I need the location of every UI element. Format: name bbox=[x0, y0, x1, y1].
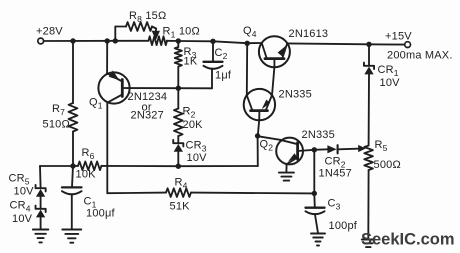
ground R5 bbox=[362, 240, 375, 248]
wire Q3 base down to node bbox=[258, 120, 259, 136]
svg-text:100μf: 100μf bbox=[86, 208, 115, 220]
wire Q1 collector down to R4 line bbox=[106, 103, 108, 194]
resistor R7 510 ohm bbox=[43, 41, 78, 166]
wire Q1 emitter to rail bbox=[106, 41, 108, 73]
resistor R2 20K bbox=[174, 88, 203, 136]
wire Q4 base to Q3 emitter bbox=[272, 67, 274, 93]
capacitor C3 100pf bbox=[306, 193, 358, 233]
resistor R1 10 ohm rheostat bbox=[149, 26, 200, 46]
svg-text:R8 15Ω: R8 15Ω bbox=[129, 10, 166, 24]
capacitor C1 100uf bbox=[62, 166, 115, 229]
node junction C2 top bbox=[210, 39, 215, 44]
ground CR4 bbox=[33, 230, 49, 243]
svg-text:20K: 20K bbox=[183, 119, 204, 131]
svg-text:500Ω: 500Ω bbox=[374, 159, 401, 171]
node junction Q1 base / R3 / R2 bbox=[176, 86, 181, 91]
node junction C1 / R7 bottom bbox=[70, 163, 75, 168]
wire Q2 emitter to ground bbox=[285, 164, 287, 172]
svg-text:10V: 10V bbox=[12, 213, 33, 225]
wire Q4 emitter to +15V terminal bbox=[287, 43, 405, 44]
wire rail R1 to Q4 bbox=[167, 41, 262, 43]
svg-text:200ma MAX.: 200ma MAX. bbox=[387, 50, 453, 62]
svg-text:+28V: +28V bbox=[36, 26, 63, 38]
ground C1 bbox=[62, 230, 81, 243]
node junction CR3 bottom / R6 line bbox=[176, 164, 181, 169]
transistor Q2 2N335 error amplifier bbox=[260, 129, 335, 164]
transistor Q3 2N335 driver bbox=[244, 89, 312, 121]
svg-text:1N457: 1N457 bbox=[319, 168, 352, 180]
svg-text:10K: 10K bbox=[76, 169, 97, 181]
wire Q2 collector to node bbox=[258, 136, 280, 140]
zener diode CR5 10V bbox=[9, 166, 46, 198]
svg-text:10V: 10V bbox=[380, 77, 401, 89]
svg-text:+15V: +15V bbox=[385, 31, 412, 43]
wire Q3 collector branch bbox=[246, 43, 248, 95]
svg-text:1μf: 1μf bbox=[215, 70, 232, 82]
svg-text:2N1613: 2N1613 bbox=[289, 28, 329, 40]
capacitor C2 1uf bbox=[204, 41, 232, 88]
svg-text:R1 10Ω: R1 10Ω bbox=[163, 26, 200, 40]
resistor R4 51K bbox=[107, 177, 314, 213]
node junction R4 / C3 / Q2 base branch bbox=[312, 191, 317, 196]
resistor R8 15 ohm bbox=[115, 10, 166, 41]
svg-text:SeekIC.com: SeekIC.com bbox=[361, 231, 455, 249]
wire Q1 base line bbox=[122, 87, 212, 89]
svg-text:51K: 51K bbox=[170, 201, 191, 213]
svg-text:1K: 1K bbox=[184, 56, 198, 68]
watermark SeekIC.com bbox=[361, 231, 455, 249]
wiper arrow into R5 bbox=[358, 145, 366, 152]
wiper arrow of R1 bbox=[152, 31, 160, 40]
ground C3 bbox=[311, 234, 325, 246]
node junction R7 top bbox=[70, 38, 75, 43]
wire R8 to R1 wiper bbox=[152, 27, 156, 32]
svg-text:10V: 10V bbox=[187, 152, 208, 164]
svg-text:510Ω: 510Ω bbox=[43, 119, 70, 131]
svg-text:2N335: 2N335 bbox=[279, 89, 312, 101]
wire CR5 branch to R6 bbox=[40, 165, 73, 167]
wire Q2 base branch vertical bbox=[313, 150, 315, 194]
svg-text:10V: 10V bbox=[14, 186, 35, 198]
wire Q2 base lead bbox=[298, 150, 315, 151]
label 200ma MAX bbox=[387, 50, 453, 62]
ground Q2 emitter bbox=[279, 173, 294, 181]
zener diode CR1 10V bbox=[364, 44, 400, 145]
node junction Q1 emitter top bbox=[105, 38, 110, 43]
node junction Q2 base / CR2 bbox=[312, 147, 317, 152]
svg-text:2N335: 2N335 bbox=[302, 129, 335, 141]
zener diode CR3 10V bbox=[173, 136, 207, 166]
resistor R3 1K bbox=[175, 41, 198, 88]
svg-text:100pf: 100pf bbox=[329, 220, 358, 232]
svg-text:2N327: 2N327 bbox=[131, 110, 164, 122]
node junction R8 left leg bbox=[113, 38, 118, 43]
node junction Q3 collector branch bbox=[245, 41, 250, 46]
transistor Q4 2N1613 bbox=[243, 25, 328, 67]
transistor Q1 2N1234/2N327 bbox=[89, 71, 167, 122]
node junction CR1 top bbox=[366, 42, 371, 47]
resistor R6 10K bbox=[73, 147, 178, 181]
terminal +15V output bbox=[385, 31, 412, 48]
terminal +28V input bbox=[36, 26, 63, 44]
resistor R5 500 ohm potentiometer bbox=[364, 139, 401, 239]
node junction Q3 base / Q2 collector bbox=[255, 133, 260, 138]
diode CR2 1N457 bbox=[314, 145, 361, 179]
wire R6 line to Q2 collector node bbox=[178, 136, 257, 166]
node junction R3 top bbox=[176, 38, 181, 43]
zener diode CR4 10V bbox=[10, 197, 46, 229]
wire +28V rail left segment bbox=[44, 40, 149, 42]
